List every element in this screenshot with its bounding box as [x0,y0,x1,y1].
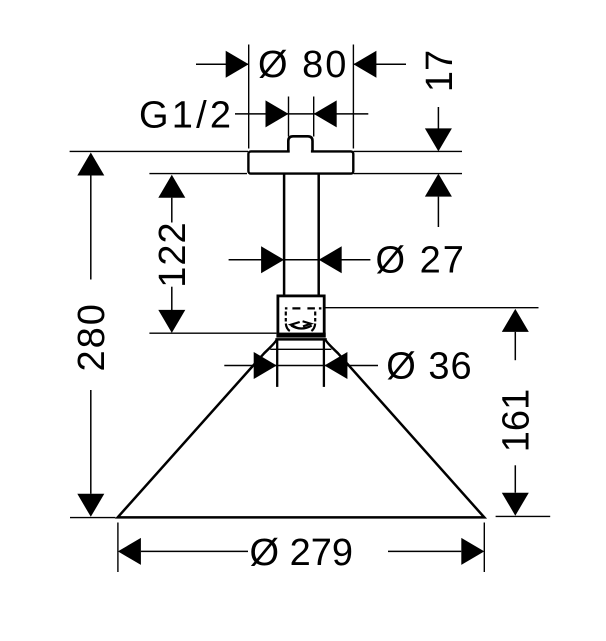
svg-text:Ø 80: Ø 80 [258,44,348,86]
svg-text:Ø 36: Ø 36 [386,346,472,388]
dimension 280: lower arrow (down) [77,494,104,517]
dimension Ø279: right line [388,550,461,552]
dimension 17: upper stem [437,107,439,129]
ball joint right chevron [303,321,311,326]
dimension 280: upper stem [90,176,92,280]
flange underside reference right (17 bottom ref) [354,173,463,175]
dimension G1/2: left tick [288,97,290,137]
dimension Ø80: left arrow [226,51,249,78]
dimension 161: upper stem [514,332,516,360]
flange underside reference left (122 top ref) [149,173,247,175]
dimension Ø27: right arrow [319,246,342,273]
cone top inner line [270,348,331,350]
pipe right wall [317,175,320,298]
dimension 122: upper stem [171,198,173,223]
dimension 161: lower stem [514,465,516,492]
dimension G1/2: right arrow [314,100,337,127]
dimension Ø80: left tail [196,63,249,65]
svg-text:161: 161 [495,389,537,452]
dimension Ø27: left arrow [261,246,284,273]
cone neck right edge (Ø36 extension) [323,339,325,387]
ball joint left chevron [291,322,300,328]
shower cone outline [118,339,485,517]
dimension G1/2: left arrow [266,100,289,127]
hidden detail: dashed top line of ball joint [285,307,323,309]
dimension Ø80: right arrow [353,51,376,78]
dimension 161: upper arrow (up) [502,309,529,332]
ball joint bottom arc [291,326,312,329]
dimension 280: bottom tick [70,517,116,519]
ceiling line right / 17 top reference [354,150,463,152]
dimension G1/2: line [235,113,368,115]
connector block body [278,296,324,336]
black collar band [276,333,325,338]
dimension Ø36: left arrow [254,352,277,379]
dimension 280: lower stem [90,390,92,494]
dimension 17: upper arrow (down) [425,128,452,151]
dimension Ø80: right tail [353,63,406,65]
dimension 17: lower arrow (up) [425,174,452,197]
dimension 17: lower stem [437,197,439,227]
hidden detail: dashed left side [285,312,287,322]
svg-text:Ø 279: Ø 279 [250,532,354,574]
svg-text:122: 122 [152,221,194,287]
dimension 122: bottom tick [149,332,276,334]
dimension Ø279: left extension line [117,523,119,573]
G1/2 threaded stub [290,138,311,155]
dimension Ø80: left extension line [248,45,250,149]
dimension Ø27: line [229,259,371,261]
svg-text:280: 280 [71,302,113,371]
dimension Ø36: line [224,365,378,367]
ceiling flange plate [248,151,353,173]
dimension 161: lower arrow (down) [502,493,529,516]
dimension Ø279: left line [141,550,248,552]
cone neck left edge (Ø36 extension) [276,339,278,387]
pipe left wall [283,175,286,298]
dimension 161: bottom tick [496,515,551,517]
hidden detail: dashed right side [314,312,316,322]
ball joint right flare curve [311,324,315,332]
dimension 122: lower arrow (down) [158,310,185,333]
dimension Ø36: right arrow [324,352,347,379]
dimension 122: lower stem [171,287,173,310]
dimension Ø279: right arrow (points right) [461,538,484,565]
svg-text:Ø 27: Ø 27 [376,239,466,281]
dimension Ø279: left arrow (points left) [118,538,141,565]
svg-text:G1/2: G1/2 [139,95,234,137]
dimension G1/2: right tick [313,97,315,137]
ball joint left flare curve [286,324,290,332]
ceiling line left [70,150,248,152]
dimension Ø279: right extension line [483,523,485,573]
dimension Ø80: right extension line [352,45,354,149]
svg-text:17: 17 [419,50,461,92]
dimension 280: upper arrow (up) [77,153,104,176]
161 top reference line (ball center) [326,307,539,309]
dimension 122: upper arrow (up) [158,175,185,198]
